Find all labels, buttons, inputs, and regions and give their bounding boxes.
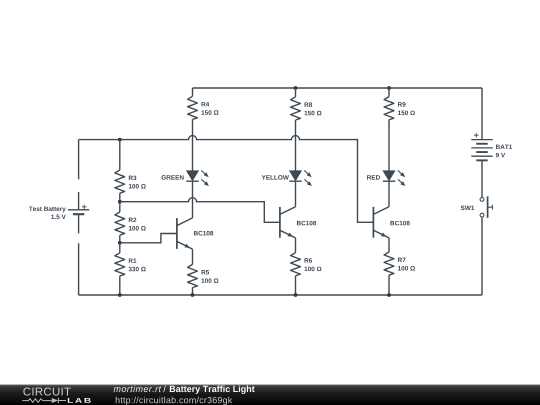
label SW1 [461, 206, 475, 211]
wire Q3 emitter to R7 [388, 238, 390, 252]
wire R4 top lead [192, 88, 194, 96]
label RED [367, 175, 380, 179]
wire RED led to Q3 collector [388, 181, 390, 207]
BAT1 plus sign [474, 134, 479, 136]
wire right rail top to BAT1 [481, 88, 483, 139]
wire BAT1 to SW1 [481, 160, 483, 197]
resistor R2 100 ohm [115, 212, 125, 235]
node R1 bottom junction [118, 293, 122, 297]
LED RED [383, 171, 395, 181]
resistor R4 150 ohm [188, 96, 198, 119]
label GREEN [162, 175, 184, 180]
wire R1 top lead [119, 243, 121, 253]
wire R6 bottom lead [295, 276, 297, 295]
wire left rail lower [78, 243, 80, 295]
wire R3 bottom lead [119, 193, 121, 202]
node R3/R2 junction [118, 200, 122, 204]
footer url http://circuitlab.com/cr369gk [116, 397, 233, 405]
wire R9 bottom lead to RED led [388, 120, 390, 171]
wire bottom bus [79, 294, 482, 296]
CircuitLab logo: LAB [68, 398, 91, 403]
wire R1 bottom lead [119, 276, 121, 295]
resistor R5 100 ohm [188, 264, 198, 287]
wire R2 top lead [119, 202, 121, 212]
resistor R1 330 ohm [115, 253, 125, 276]
wire Q1 emitter to R5 [192, 249, 194, 264]
wire test battery top lead [78, 192, 80, 209]
label YELLOW [262, 175, 289, 180]
node R7 bottom junction [387, 293, 391, 297]
CircuitLab logo: CIRCUIT [23, 387, 70, 395]
LED GREEN [187, 171, 199, 181]
resistor R7 100 ohm [384, 252, 394, 275]
node R3 top junction [118, 138, 122, 142]
resistor R6 100 ohm [291, 253, 301, 276]
node R5 bottom junction [191, 293, 195, 297]
wire YELLOW led to Q2 collector [295, 181, 297, 207]
logo resistor-diode squiggle [22, 399, 51, 403]
label BAT1 9 V [496, 145, 512, 149]
resistor R8 150 ohm [291, 97, 301, 120]
node R2/R1 junction [118, 241, 122, 245]
test battery plus sign [82, 206, 87, 208]
wire top bus [193, 87, 483, 89]
switch SW1 pushbutton [480, 198, 484, 202]
wire left rail upper [78, 140, 80, 180]
wire R9 top lead [388, 88, 390, 97]
node R6 bottom junction [294, 293, 298, 297]
battery Test Battery 1.5V plates [68, 209, 89, 211]
transistor Q3 BC108 (red) [372, 207, 374, 238]
wire GREEN led to Q1 collector [192, 181, 194, 218]
wire R8 top lead [295, 88, 297, 97]
footer title: mortimer.rt / Battery Traffic Light [114, 385, 162, 392]
wire Q2 emitter to R6 [295, 238, 297, 253]
wire R2 bottom lead [119, 235, 121, 243]
wire R7 bottom lead [388, 275, 390, 295]
transistor Q2 BC108 (yellow) [279, 207, 281, 238]
wire from R3/R2 junction to Q2 base (hops over green branch) [120, 198, 280, 223]
wire from R2/R1 junction to Q1 base [120, 234, 177, 243]
wire R5 bottom lead [192, 288, 194, 295]
LED YELLOW [290, 171, 302, 181]
wire R4 bottom lead to GREEN led [192, 120, 194, 171]
node top bus / R9 junction [387, 86, 391, 90]
wire R8 bottom lead to YELLOW led [295, 120, 297, 171]
node top bus / R8 junction [294, 86, 298, 90]
wire SW1 to bottom bus [481, 217, 483, 295]
battery BAT1 9V plates [471, 139, 492, 141]
wire R3 top lead [119, 140, 121, 170]
resistor R3 100 ohm [115, 170, 125, 193]
transistor Q1 BC108 (green) [176, 218, 178, 249]
wire from left rail to Q3 base (hops over green and yellow branches) [79, 136, 374, 223]
label Test Battery 1.5 V [29, 207, 66, 213]
wire test battery bottom lead [78, 214, 80, 233]
resistor R9 150 ohm [384, 97, 394, 120]
